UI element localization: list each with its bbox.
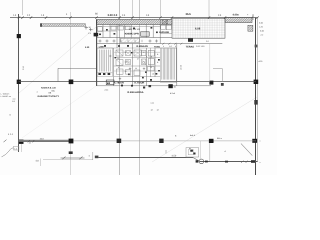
small circles: [127, 61, 129, 63]
leader label box: [14, 146, 19, 150]
svg-text:4: 4: [175, 45, 176, 48]
svg-text:10: 10: [143, 51, 145, 54]
svg-text:K.TIDUR: K.TIDUR: [135, 82, 145, 85]
svg-text:4.00x: 4.00x: [233, 14, 240, 17]
ramp diagonal SE: [241, 144, 252, 156]
tick on south wall: [165, 150, 167, 154]
dark tick cluster on grid A: [69, 151, 73, 154]
hatched strip row2: [120, 38, 139, 42]
top dimension line: [10, 17, 258, 19]
building south wall west part y=157: [98, 157, 193, 159]
tiny plus marks extra: [109, 40, 142, 57]
right yard corner v: [221, 69, 223, 83]
septic cluster box: [186, 148, 199, 157]
svg-text:GARAGE FT/UTILITY: GARAGE FT/UTILITY: [38, 95, 60, 98]
column P3: [19, 140, 24, 144]
svg-text:x: x: [260, 161, 261, 164]
svg-text:10: 10: [152, 73, 154, 76]
right yard corner h: [213, 68, 222, 70]
svg-text:3.00 2.0: 3.00 2.0: [108, 14, 118, 17]
garage south wall thick: [19, 140, 71, 142]
column E1: [254, 80, 259, 84]
east wall dark mark: [254, 100, 257, 105]
svg-text:6.08: 6.08: [195, 28, 201, 31]
column S4: [209, 139, 214, 143]
grid vertical x=210 lower: [209, 44, 211, 82]
west wall outside dim marks: [88, 26, 92, 35]
kitchen fixtures row1: [98, 26, 130, 32]
x-box: [162, 20, 168, 24]
column P2: [17, 80, 21, 84]
NE small rooms cluster: [160, 20, 172, 34]
svg-text:GUDANG: GUDANG: [159, 31, 169, 34]
extension line x=22.5: [22, 0, 24, 15]
south side texts left: [8, 133, 45, 145]
stair west treads: [99, 50, 110, 72]
svg-text:1.8: 1.8: [12, 100, 15, 103]
svg-text:KM/WC DPR: KM/WC DPR: [125, 33, 139, 36]
teras ticks: [162, 43, 182, 45]
bottom dim line left: [43, 159, 93, 161]
east wall tick: [255, 45, 258, 48]
top dimension texts: [13, 13, 255, 17]
column S1: [69, 139, 74, 144]
dim arrows y=158: [61, 157, 85, 160]
column S3: [159, 139, 163, 143]
svg-text:4: 4: [37, 90, 38, 93]
building south wall east part y=161.8: [200, 161, 258, 163]
svg-text:LINK: LINK: [99, 46, 105, 49]
partitions row1: [103, 20, 166, 49]
partitions row2: [114, 44, 177, 86]
short post x=253 top: [252, 15, 254, 21]
svg-text:TERAS: TERAS: [186, 45, 195, 48]
top wall crosshatch band east: [225, 18, 252, 23]
svg-text:4.50: 4.50: [172, 154, 177, 157]
column M3 small: [221, 83, 224, 86]
stair west box: [97, 48, 112, 77]
grid line B (x=119.7): [119, 0, 121, 175]
step corner marks: [190, 150, 195, 155]
svg-text:R.MAKAN: R.MAKAN: [137, 45, 149, 48]
faint fold diagonal garage: [22, 86, 96, 138]
dark blob DA8: [106, 80, 114, 85]
bedroom fixtures: [116, 50, 154, 75]
stair east box: [160, 48, 176, 82]
short vert below P3: [21, 144, 23, 152]
building east wall double line: [255, 18, 257, 175]
extra dark dots: [115, 52, 160, 87]
svg-text:x.xx: x.xx: [151, 102, 155, 105]
plus marks mid: [119, 68, 145, 81]
scattered digits: [125, 51, 160, 73]
svg-text:x: x: [260, 140, 261, 143]
fence end post: [40, 23, 42, 27]
svg-text:L. BANG : xx: L. BANG : xx: [1, 95, 12, 98]
carport north line: [58, 67, 97, 69]
leader curve bottom-left: [2, 148, 14, 157]
deck grid room: [172, 19, 225, 39]
svg-text:2.00 1.50: 2.00 1.50: [196, 45, 205, 48]
faint fold diagonal right yard: [152, 97, 257, 162]
svg-text:12.00: 12.00: [180, 64, 183, 70]
column E2: [252, 139, 257, 143]
west margin text block: [1, 90, 38, 116]
svg-text:RAMA R.B. L/B: RAMA R.B. L/B: [41, 87, 56, 90]
east side dim text rows: [259, 22, 265, 165]
dimension ticks top: [18, 16, 259, 18]
svg-text:8: 8: [151, 56, 152, 59]
tick x=40.5: [40, 159, 42, 167]
svg-text:24: 24: [117, 57, 119, 60]
NE small boxes: [161, 25, 166, 29]
svg-text:R.KELUARGA: R.KELUARGA: [128, 91, 144, 94]
west tick: [13, 98, 16, 100]
svg-text:8: 8: [118, 66, 119, 69]
stair east bottom column: [168, 84, 172, 88]
mid-right small texts: [151, 92, 176, 112]
svg-text:36.5: 36.5: [186, 13, 192, 16]
svg-text:4: 4: [146, 55, 147, 58]
interior line y=48: [97, 47, 178, 49]
extra tiny digits: [117, 55, 154, 77]
extra fixture marks: [126, 51, 155, 75]
septic inner box: [188, 150, 193, 155]
extra partition: [150, 48, 152, 77]
wc circle on south line: [199, 159, 204, 164]
column S2: [117, 139, 122, 143]
svg-text:4: 4: [163, 45, 164, 48]
top wall crosshatch band west: [96, 20, 172, 25]
extension line x=160.5: [160, 0, 162, 18]
stair west landing line: [97, 72, 112, 74]
svg-text:L. TANAH :: L. TANAH :: [1, 93, 11, 96]
main interior wall line y=81.7: [19, 81, 256, 83]
svg-text:2.2x: 2.2x: [105, 88, 109, 91]
extension line x=132.5: [132, 0, 134, 19]
bottom wall start block: [95, 156, 99, 159]
marks around circle: [196, 160, 255, 163]
south grid line thin continuation: [71, 140, 256, 142]
svg-text:BB+x: BB+x: [217, 137, 222, 140]
column M1: [69, 80, 74, 85]
building west wall: [96, 20, 98, 87]
extension line x=209: [208, 0, 210, 18]
svg-text:24: 24: [135, 67, 137, 70]
grid line A (x=70.5): [70, 12, 72, 175]
room shelf lines: [97, 27, 161, 77]
column P1: [17, 34, 21, 38]
interior floor line y=43.5: [97, 43, 223, 45]
faint fold diagonal left yard: [19, 27, 96, 93]
small dim marks near x=90: [92, 152, 94, 160]
svg-text:BBL: BBL: [52, 90, 56, 93]
east hatched block: [248, 25, 253, 31]
svg-text:TANG: TANG: [154, 46, 160, 49]
column W1 on west wall: [94, 33, 99, 37]
stair west bottom marks: [98, 73, 110, 75]
south tick marks: [4, 140, 35, 143]
counter dark box: [141, 32, 150, 36]
septic vert line: [200, 141, 202, 159]
svg-text:4 2 4: 4 2 4: [8, 133, 14, 136]
extra shelf lines mid rooms: [114, 51, 161, 53]
deck under cluster dark box: [188, 38, 193, 41]
fixture diagonals: [116, 50, 141, 65]
fence hatched band: [41, 24, 86, 27]
SE corner texts: [175, 134, 227, 153]
svg-text:1.6: 1.6: [169, 45, 172, 48]
stair east treads: [162, 48, 175, 79]
grid line C (x=139.6): [139, 0, 141, 175]
step jog diagonal: [193, 158, 200, 162]
fence gate marks: [85, 26, 93, 31]
carport west line: [57, 68, 59, 82]
property line west: [18, 14, 20, 152]
row2 plus marks: [99, 40, 159, 43]
interior floor line y=37.5: [97, 37, 173, 39]
svg-text:6: 6: [130, 74, 131, 77]
svg-text:K.TIDUR: K.TIDUR: [114, 82, 124, 85]
column M2 small: [209, 81, 213, 85]
interior line y=85.8: [97, 85, 212, 87]
noise marks busy block: [99, 27, 160, 89]
